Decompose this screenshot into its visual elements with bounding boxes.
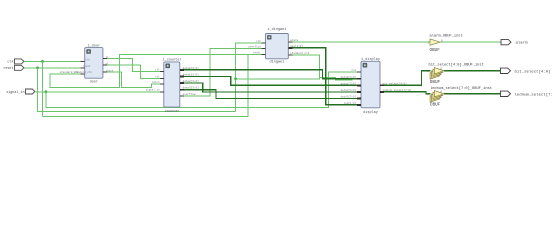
svg-text:signal_in: signal_in (146, 88, 160, 92)
svg-text:data3[3:0]: data3[3:0] (341, 95, 357, 99)
module i_display (341, 57, 412, 115)
svg-text:data0[3:0]: data0[3:0] (341, 75, 357, 79)
wire door out2 to counter rst (107, 65, 160, 79)
svg-text:latch: latch (106, 68, 114, 72)
svg-text:door: door (90, 79, 98, 84)
wire signal_in bottom loop (46, 72, 357, 108)
wire reset loop to dingwei (38, 68, 236, 112)
svg-text:clk: clk (85, 58, 90, 62)
wire reset: port to door (24, 67, 81, 69)
output port bit_select[4:0] (501, 68, 551, 74)
wire clk: port to door (24, 60, 81, 62)
svg-text:counter: counter (165, 109, 180, 114)
wire signal_in: port to counter (36, 91, 160, 93)
svg-text:i_counter: i_counter (163, 58, 182, 63)
svg-text:signal_in: signal_in (6, 90, 24, 95)
svg-text:OBUF: OBUF (430, 80, 441, 85)
svg-text:clk: clk (155, 67, 160, 71)
junction clk (41, 60, 44, 63)
svg-text:num[1:0]: num[1:0] (344, 101, 357, 105)
svg-text:latch: latch (152, 80, 160, 84)
wire standard_clk from dingwei output (236, 55, 353, 80)
bus bit_select[4:0]: display to OBUF stack (384, 71, 431, 86)
svg-text:data2[3:0]: data2[3:0] (341, 88, 357, 92)
buffer stack OBUF lednum_select[7:0]_OBUF_inst (427, 86, 492, 107)
svg-text:data1[3:0]: data1[3:0] (183, 73, 200, 77)
bus num[1:0]: dingwei to display (292, 48, 357, 105)
svg-text:data1[3:0]: data1[3:0] (341, 81, 357, 85)
svg-text:standard_clk: standard_clk (60, 70, 80, 74)
bus bit_select OBUF to port (444, 70, 500, 72)
svg-text:overflow: overflow (183, 92, 196, 96)
buffer stack OBUF bit_select[4:0]_OBUF_inst (427, 63, 484, 85)
svg-text:i_door: i_door (87, 43, 100, 48)
wire door out3 to counter latch (107, 72, 160, 87)
bus data2[3:0]: counter to display (184, 83, 357, 92)
bus lednum_select[7:0]: display to OBUF stack (384, 92, 431, 94)
svg-text:alarm: alarm (516, 41, 529, 46)
junction reset (36, 66, 39, 69)
svg-text:bit_select[4:0]_OBUF_inst: bit_select[4:0]_OBUF_inst (429, 63, 484, 68)
svg-text:overflow: overflow (248, 44, 261, 48)
wire door out1 to counter clk (107, 59, 160, 72)
svg-text:reset: reset (83, 65, 91, 68)
svg-text:clk: clk (352, 68, 357, 72)
input port reset (3, 65, 24, 71)
svg-text:alarm: alarm (290, 38, 298, 42)
svg-text:data0[3:0]: data0[3:0] (183, 66, 200, 70)
svg-text:standard_clk: standard_clk (290, 51, 310, 55)
svg-text:data3[3:0]: data3[3:0] (183, 86, 200, 90)
svg-text:data2[3:0]: data2[3:0] (183, 79, 200, 83)
bus data1[3:0]: counter to display (184, 77, 357, 86)
bus data3[3:0]: counter to display (184, 90, 357, 99)
svg-text:num[1:0]: num[1:0] (290, 44, 303, 48)
buffer OBUF alarm_OBUF_inst (427, 34, 462, 54)
input port signal_in (6, 89, 35, 95)
module i_counter (146, 58, 200, 115)
svg-text:dingwei: dingwei (270, 60, 285, 65)
svg-text:display: display (363, 110, 378, 115)
output port lednum_select[7:0] (501, 91, 552, 97)
svg-text:i_dingwei: i_dingwei (267, 27, 286, 32)
svg-text:i_display: i_display (361, 57, 380, 62)
junction signal_in (45, 90, 48, 93)
module i_dingwei (248, 27, 309, 64)
svg-text:lednum_select[7:0]: lednum_select[7:0] (515, 92, 552, 97)
input port clk (7, 59, 24, 65)
svg-text:reset: reset (3, 66, 13, 71)
junction standard_clk riser (234, 77, 237, 80)
svg-text:reset: reset (253, 52, 261, 55)
output port alarm (501, 39, 528, 45)
wire net riser to dingwei clk pin (236, 43, 262, 112)
svg-text:OBUF: OBUF (430, 102, 441, 107)
wire alarm: dingwei to OBUF (292, 41, 430, 43)
wire alarm: OBUF to port (440, 41, 501, 43)
svg-text:lednum_select[7:0]: lednum_select[7:0] (383, 88, 412, 92)
module i_door (73, 43, 113, 84)
wire clk vertical drop (42, 61, 44, 116)
wire clk long horizontal run to display (43, 55, 262, 117)
bus lednum_select OBUF to port (444, 93, 500, 95)
svg-text:nl: nl (106, 61, 110, 65)
svg-text:lt: lt (106, 55, 110, 59)
wire standard_clk feedback into door and up to dingwei clk (50, 55, 248, 88)
wire overflow: counter to dingwei (184, 48, 262, 96)
bus data0[3:0]: counter to display (184, 70, 357, 79)
svg-text:clk: clk (256, 39, 261, 43)
svg-text:bit_select[4:0]: bit_select[4:0] (383, 81, 408, 85)
svg-text:bit_select[4:0]: bit_select[4:0] (515, 69, 551, 74)
svg-text:rst: rst (155, 76, 160, 79)
svg-text:lednum_select[7:0]_OBUF_inst: lednum_select[7:0]_OBUF_inst (430, 86, 492, 91)
svg-text:alarm_OBUF_inst: alarm_OBUF_inst (430, 34, 463, 39)
svg-text:clk: clk (7, 60, 13, 65)
svg-text:OBUF: OBUF (430, 48, 441, 53)
